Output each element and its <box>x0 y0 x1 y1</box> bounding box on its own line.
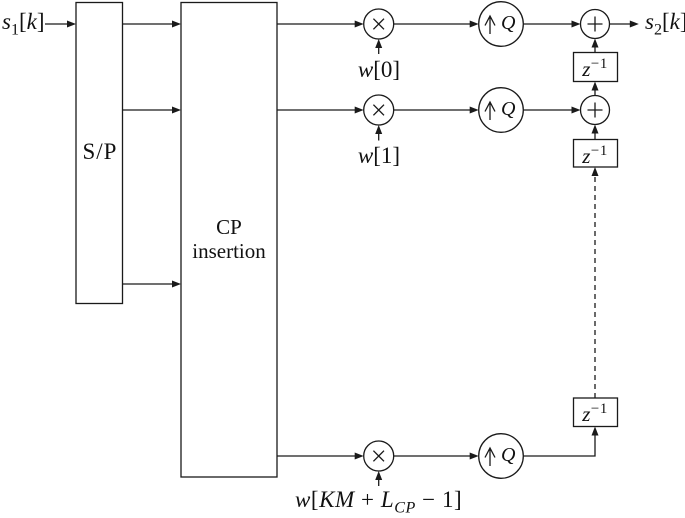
label z^-1 box2 <box>573 143 617 169</box>
upsampler U3 circle <box>479 434 524 479</box>
wire U2 to A2 <box>523 109 572 111</box>
adder A1 plus <box>588 17 603 32</box>
CP insertion block box <box>181 3 277 478</box>
wire U1 to A1 <box>523 23 572 25</box>
wire Z2 to A2 <box>594 133 596 140</box>
label Q in U2 <box>501 98 515 121</box>
label S/P <box>77 139 123 165</box>
label CP insertion <box>181 215 277 263</box>
label w[KM+LCP-1] <box>295 487 462 518</box>
wire w_last into M3 <box>378 480 380 487</box>
wire w0 into M1 <box>378 48 380 55</box>
adder A2 plus <box>588 103 603 118</box>
multiplier M3 circle <box>364 441 394 471</box>
wire A1 to s2 output <box>610 23 631 25</box>
label Q in U1 <box>501 12 515 35</box>
upsampler U1 circle <box>479 2 524 47</box>
multiplier M1 cross <box>373 19 384 30</box>
upsampler U3 up-arrow <box>485 448 495 466</box>
upsampler U1 up-arrow <box>485 16 495 34</box>
multiplier M1 circle <box>364 9 394 39</box>
wire S/P to CP row1 <box>123 23 173 25</box>
label w[0] <box>352 57 406 83</box>
adder A1 circle <box>581 10 610 39</box>
wire S/P to CP row2 <box>123 109 173 111</box>
label s2[k] <box>645 9 685 40</box>
wire CP to M1 <box>277 23 355 25</box>
label w[1] <box>352 143 406 169</box>
wire Z1 to A1 <box>594 47 596 53</box>
wire A2 to Z1 <box>594 90 596 96</box>
multiplier M2 circle <box>364 95 394 125</box>
label s1[k] <box>2 9 45 40</box>
wire w1 into M2 <box>378 134 380 141</box>
upsampler U2 circle <box>479 88 524 133</box>
delay z^-1 box 1 <box>574 53 618 82</box>
wire S/P to CP row3 <box>123 283 173 285</box>
label z^-1 box3 <box>573 401 617 427</box>
label z^-1 box1 <box>573 56 617 82</box>
label Q in U3 <box>501 444 515 467</box>
adder A2 circle <box>581 96 610 125</box>
wire s1 input <box>45 23 68 25</box>
wire M3 to U3 <box>394 455 471 457</box>
wire dashed Z3 to Z2 <box>594 177 596 398</box>
wire M1 to U1 <box>394 23 471 25</box>
delay z^-1 box 2 <box>574 140 618 168</box>
multiplier M3 cross <box>373 451 384 462</box>
wire CP to M3 <box>277 455 355 457</box>
multiplier M2 cross <box>373 105 384 116</box>
S/P block box <box>76 3 123 304</box>
wire M2 to U2 <box>394 109 471 111</box>
upsampler U2 up-arrow <box>485 102 495 120</box>
delay z^-1 box 3 <box>574 398 618 427</box>
wire CP to M2 <box>277 109 355 111</box>
wire U3 to Z3 corner <box>523 435 595 456</box>
